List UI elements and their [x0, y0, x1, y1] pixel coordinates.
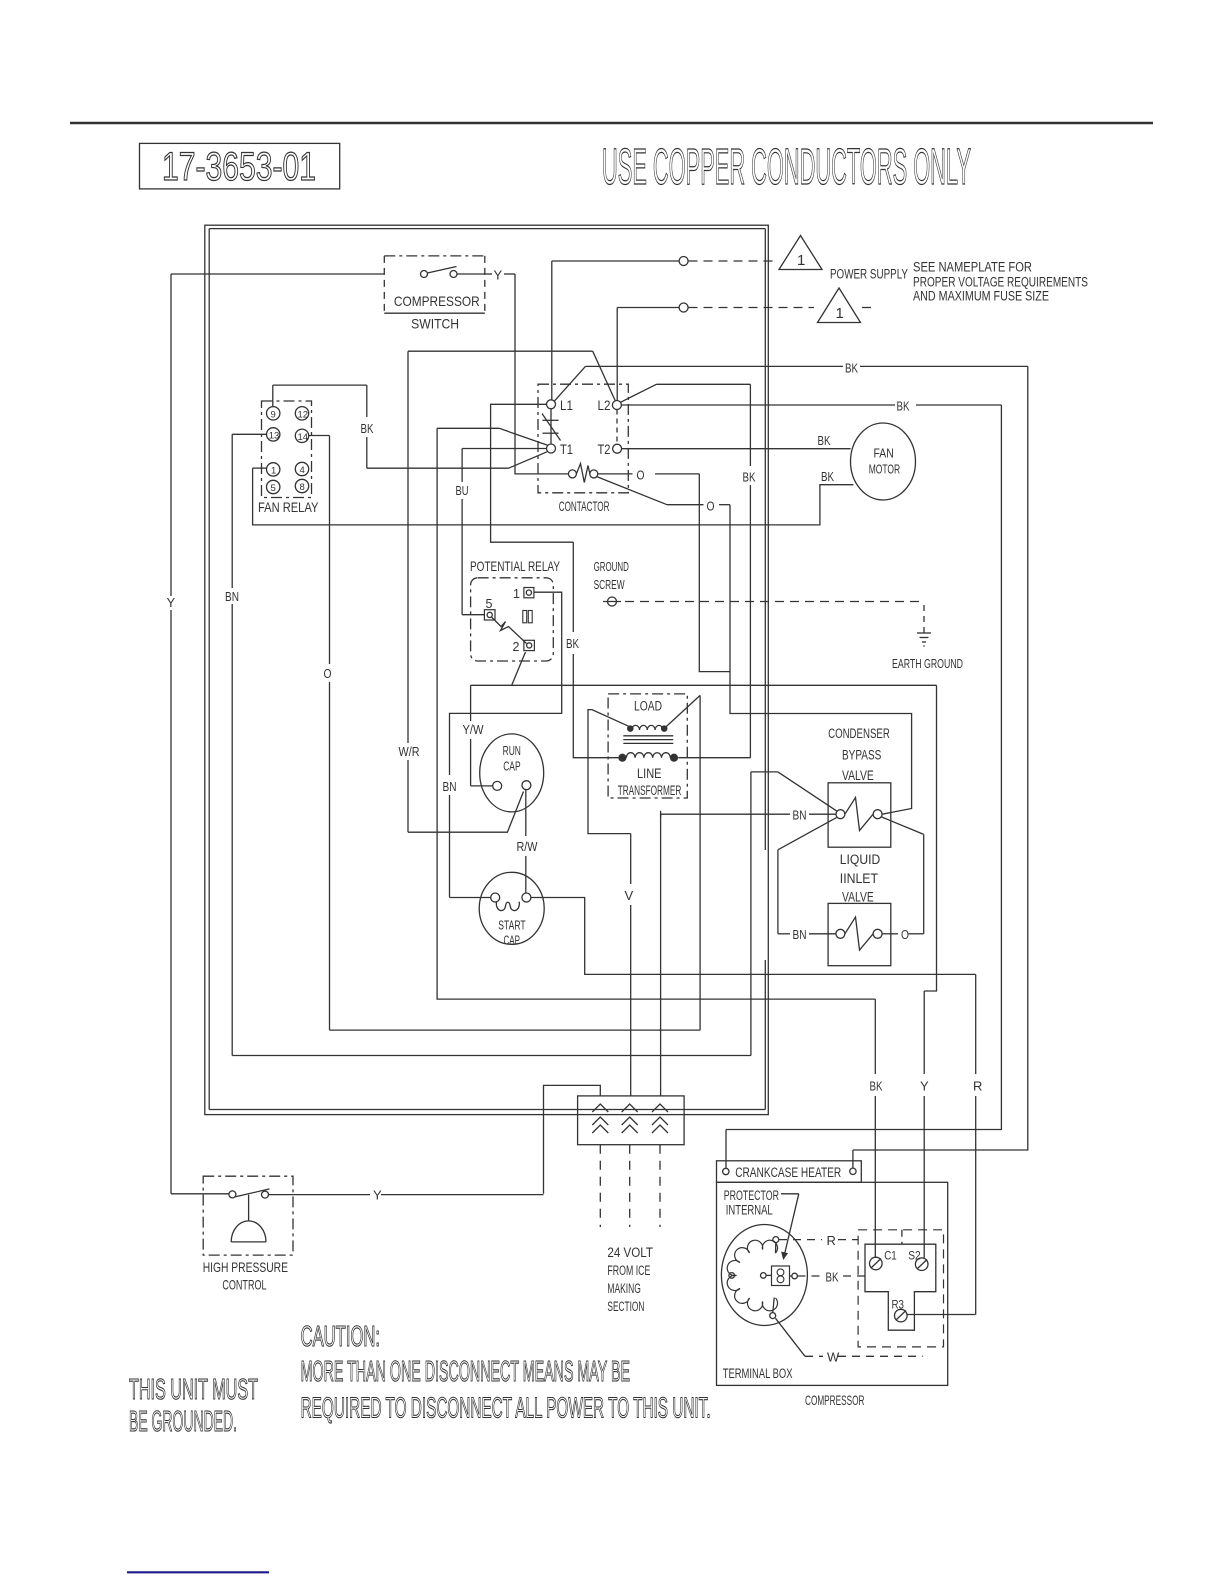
svg-text:L1: L1 [560, 398, 573, 413]
svg-text:14: 14 [298, 432, 309, 443]
wire fan relay 14 stub [309, 435, 330, 437]
terminal screw S2 [915, 1258, 928, 1271]
crankcase heater [717, 1161, 862, 1183]
warning triangle 1 [779, 236, 822, 270]
svg-text:START: START [498, 919, 526, 933]
svg-text:BE GROUNDED.: BE GROUNDED. [129, 1406, 237, 1438]
fan relay terminal 8 [295, 479, 308, 492]
svg-text:BYPASS: BYPASS [842, 748, 881, 763]
wire W/R vertical [407, 351, 409, 743]
svg-text:LINE: LINE [637, 766, 662, 781]
svg-text:CAP: CAP [504, 934, 521, 948]
start capacitor [479, 872, 544, 944]
fan relay terminal 12 [295, 407, 308, 420]
svg-text:O: O [637, 468, 645, 483]
drawing number box 17-3653-01 [140, 143, 340, 189]
svg-text:CAUTION:: CAUTION: [301, 1321, 380, 1353]
svg-text:BK: BK [818, 433, 831, 448]
inner schematic border box B [209, 228, 765, 230]
compressor motor terminals [773, 1237, 779, 1243]
wire transformer load left to V [588, 710, 631, 834]
svg-text:C1: C1 [884, 1248, 897, 1262]
contactor terminal L1 [547, 400, 556, 409]
run capacitor [480, 734, 544, 812]
svg-text:BN: BN [225, 589, 239, 604]
contactor main contact L1-T1 [550, 409, 552, 444]
svg-text:BK: BK [566, 636, 579, 651]
svg-text:BN: BN [793, 808, 807, 823]
wire W/R horizontal to L2 apex [408, 350, 593, 352]
fan relay terminal 14 [295, 429, 308, 442]
potential relay terminal 2 [524, 640, 535, 650]
wire Y compressor switch to contactor coil [485, 273, 492, 275]
svg-text:MOTOR: MOTOR [869, 463, 901, 477]
svg-text:VALVE: VALVE [842, 890, 874, 905]
potential relay terminal 1 [524, 588, 534, 598]
svg-text:BK: BK [743, 470, 756, 485]
svg-text:BK: BK [897, 399, 910, 414]
wire left to compressor switch [171, 273, 384, 275]
24 volt terminal block [578, 1096, 685, 1145]
dashed lead W [776, 1318, 806, 1356]
contactor terminal T2 [613, 444, 622, 453]
fan relay terminal 5 [267, 480, 280, 493]
contactor enclosure [538, 384, 628, 493]
dashed leads to ice making section [599, 1145, 601, 1227]
contactor coil [568, 470, 576, 478]
svg-text:EARTH GROUND: EARTH GROUND [892, 656, 963, 671]
svg-text:BN: BN [443, 779, 457, 794]
wire BN fan relay 13 to condenser bypass valve [232, 433, 266, 435]
potential relay coil zigzag [492, 617, 527, 644]
svg-text:PROPER VOLTAGE REQUIREMENTS: PROPER VOLTAGE REQUIREMENTS [913, 275, 1088, 290]
svg-text:R: R [973, 1079, 982, 1094]
dashed lead R [779, 1239, 822, 1241]
wire transformer load right riser to fan relay 14 [666, 695, 700, 727]
svg-text:RUN: RUN [503, 744, 521, 758]
svg-text:MORE THAN ONE DISCONNECT MEANS: MORE THAN ONE DISCONNECT MEANS MAY BE [301, 1356, 630, 1388]
wire V to 24 volt block [630, 834, 632, 884]
protector internal element [772, 1266, 790, 1286]
svg-text:BK: BK [361, 421, 374, 436]
svg-text:1: 1 [836, 305, 844, 322]
svg-text:13: 13 [269, 431, 280, 442]
wire Y left side down to high pressure control [170, 274, 172, 596]
wire O contactor coil upper [598, 473, 633, 475]
svg-text:THIS UNIT MUST: THIS UNIT MUST [129, 1374, 258, 1406]
svg-text:12: 12 [298, 410, 309, 421]
svg-text:TERMINAL BOX: TERMINAL BOX [723, 1366, 793, 1381]
contactor terminal L2 [612, 401, 621, 410]
svg-text:R: R [827, 1233, 836, 1248]
svg-text:T2: T2 [598, 442, 611, 457]
svg-text:BK: BK [845, 361, 858, 376]
svg-text:BU: BU [456, 483, 469, 498]
compressor terminal plate dashed box [858, 1230, 943, 1347]
svg-text:W/R: W/R [399, 744, 420, 759]
potential relay terminal 5 [484, 610, 495, 620]
svg-text:BK: BK [821, 469, 834, 484]
svg-text:BK: BK [870, 1079, 883, 1094]
wire Y/W potential relay to run cap [470, 685, 472, 721]
power supply terminal 1 [679, 257, 688, 266]
wire L2 diagonal to transformer BK [621, 384, 657, 402]
svg-text:CONTROL: CONTROL [222, 1276, 266, 1292]
wire BU T1 to potential relay 5 [462, 448, 546, 450]
svg-text:Y: Y [373, 1188, 382, 1203]
line transformer enclosure [608, 694, 687, 798]
fan relay terminal 4 [295, 462, 308, 475]
svg-text:R3: R3 [892, 1297, 905, 1311]
wire O contactor coil to condenser bypass valve [597, 477, 667, 505]
terminal screw R3 [895, 1309, 908, 1322]
wire transformer line left to L1 loop [573, 654, 622, 758]
svg-text:L2: L2 [598, 398, 611, 413]
wire BK L1 to crankcase heater right [585, 365, 843, 367]
svg-text:INTERNAL: INTERNAL [726, 1203, 773, 1218]
terminal screw C1 [870, 1257, 883, 1270]
power supply terminal 2 [679, 303, 688, 312]
dashed power lead 2 [689, 307, 815, 309]
wire BK L2 to crankcase heater left [621, 404, 895, 406]
svg-text:BK: BK [826, 1270, 839, 1285]
liquid inlet valve [828, 903, 891, 965]
warning triangle 2 [818, 288, 861, 323]
svg-text:HIGH PRESSURE: HIGH PRESSURE [203, 1259, 288, 1275]
wire power terminal 2 to L2 [617, 307, 679, 309]
fan relay terminal 9 [267, 407, 280, 420]
potential relay enclosure [471, 578, 554, 661]
svg-text:1: 1 [271, 466, 276, 477]
compressor terminal plate [865, 1244, 936, 1330]
wire Y high pressure control [171, 1193, 229, 1195]
svg-text:Y: Y [167, 595, 176, 610]
wire start cap right to compressor R3 [531, 898, 976, 975]
svg-text:O: O [707, 499, 715, 514]
earth ground symbol [923, 629, 925, 633]
svg-text:FAN RELAY: FAN RELAY [258, 499, 319, 515]
svg-text:R/W: R/W [517, 839, 539, 854]
wire power terminal 1 to L1 [552, 260, 679, 262]
svg-text:LOAD: LOAD [634, 699, 662, 714]
transformer load coil [632, 725, 663, 730]
potential relay contact bars [523, 611, 527, 623]
svg-text:POWER SUPPLY: POWER SUPPLY [830, 267, 908, 282]
dashed wire ground screw to earth ground [625, 601, 920, 603]
wire fan relay 1 to fan motor [253, 467, 267, 469]
svg-text:REQUIRED TO DISCONNECT ALL POW: REQUIRED TO DISCONNECT ALL POWER TO THIS… [301, 1392, 711, 1424]
wire potential relay 1 to start cap BN [450, 592, 562, 775]
svg-text:24 VOLT: 24 VOLT [607, 1245, 653, 1260]
svg-text:1: 1 [513, 587, 520, 601]
svg-text:V: V [625, 888, 634, 903]
svg-text:4: 4 [300, 465, 305, 476]
svg-text:COMPRESSOR: COMPRESSOR [394, 293, 480, 309]
page top rule [70, 122, 1153, 125]
compressor motor winding [721, 1225, 807, 1326]
svg-text:5: 5 [271, 483, 276, 494]
svg-text:FAN: FAN [874, 447, 894, 461]
svg-text:BN: BN [793, 927, 807, 942]
svg-text:Y: Y [920, 1079, 929, 1094]
footer rule [127, 1571, 269, 1573]
svg-text:W: W [827, 1350, 840, 1365]
protector leader arrow [781, 1193, 799, 1195]
wire Y high pressure control to 24 volt block [544, 1085, 601, 1193]
transformer core [623, 735, 673, 737]
condenser bypass valve [828, 783, 891, 847]
svg-text:FROM ICE: FROM ICE [607, 1263, 650, 1278]
svg-text:TRANSFORMER: TRANSFORMER [618, 783, 682, 798]
svg-text:SWITCH: SWITCH [411, 316, 459, 332]
transformer line coil [626, 753, 670, 758]
svg-text:5: 5 [486, 597, 493, 611]
wire T1 to compressor C1 [499, 428, 547, 445]
svg-text:SCREW: SCREW [594, 577, 625, 592]
fan relay enclosure [262, 401, 312, 498]
svg-text:POTENTIAL RELAY: POTENTIAL RELAY [470, 558, 560, 574]
svg-text:CONTACTOR: CONTACTOR [559, 498, 610, 514]
svg-text:CAP: CAP [503, 760, 520, 774]
svg-text:T1: T1 [560, 442, 573, 457]
wire BK T2 to fan motor [622, 448, 851, 450]
svg-text:SEE NAMEPLATE FOR: SEE NAMEPLATE FOR [913, 260, 1032, 275]
svg-text:CONDENSER: CONDENSER [828, 726, 890, 741]
wire potential relay 2 to compressor S2 [471, 684, 937, 686]
svg-text:17-3653-01: 17-3653-01 [162, 145, 316, 189]
svg-text:1: 1 [797, 252, 805, 269]
svg-text:Y/W: Y/W [463, 722, 485, 737]
wire BK T1 to fan relay 9 [509, 452, 547, 468]
compressor switch S1 [384, 255, 485, 257]
svg-text:MAKING: MAKING [607, 1281, 641, 1296]
high pressure control enclosure [203, 1176, 293, 1255]
svg-text:AND MAXIMUM FUSE SIZE: AND MAXIMUM FUSE SIZE [913, 289, 1049, 304]
wire condenser valve left to liquid valve BN [778, 818, 837, 850]
svg-text:S2: S2 [908, 1248, 921, 1262]
svg-text:IINLET: IINLET [840, 871, 878, 886]
wire BK L2 to line transformer [749, 384, 751, 466]
wire R/W run cap to start cap [525, 790, 527, 836]
fan relay terminal 1 [267, 463, 280, 476]
svg-text:VALVE: VALVE [842, 768, 874, 783]
fan motor [851, 423, 916, 500]
wire potential relay 2 diagonal [512, 652, 526, 685]
high pressure control switch [229, 1191, 236, 1198]
contactor contact L2-T2 dashed [616, 410, 618, 445]
svg-text:USE COPPER CONDUCTORS ONLY: USE COPPER CONDUCTORS ONLY [602, 138, 971, 195]
svg-text:8: 8 [300, 482, 305, 493]
svg-text:PROTECTOR: PROTECTOR [724, 1188, 779, 1203]
contactor terminal T1 [547, 444, 556, 453]
svg-text:O: O [324, 666, 332, 681]
svg-text:Y: Y [494, 268, 503, 283]
svg-text:2: 2 [513, 640, 520, 654]
wire L1 diagonal to top BK wire [554, 366, 585, 401]
dashed lead BK [798, 1275, 822, 1277]
compressor terminal box outline [717, 1182, 948, 1385]
svg-text:SECTION: SECTION [607, 1299, 644, 1314]
svg-text:LIQUID: LIQUID [840, 852, 881, 867]
fan relay terminal 13 [267, 428, 280, 441]
dashed power lead 1 [689, 260, 777, 262]
wire BN to condenser bypass valve [661, 813, 790, 815]
svg-text:CRANKCASE HEATER: CRANKCASE HEATER [735, 1165, 841, 1180]
outer schematic border box A [205, 225, 769, 1114]
svg-text:COMPRESSOR: COMPRESSOR [805, 1392, 864, 1408]
svg-text:O: O [901, 927, 909, 942]
svg-text:9: 9 [271, 410, 276, 421]
svg-text:GROUND: GROUND [594, 559, 629, 574]
wire condenser valve right to liquid valve O [882, 817, 924, 834]
